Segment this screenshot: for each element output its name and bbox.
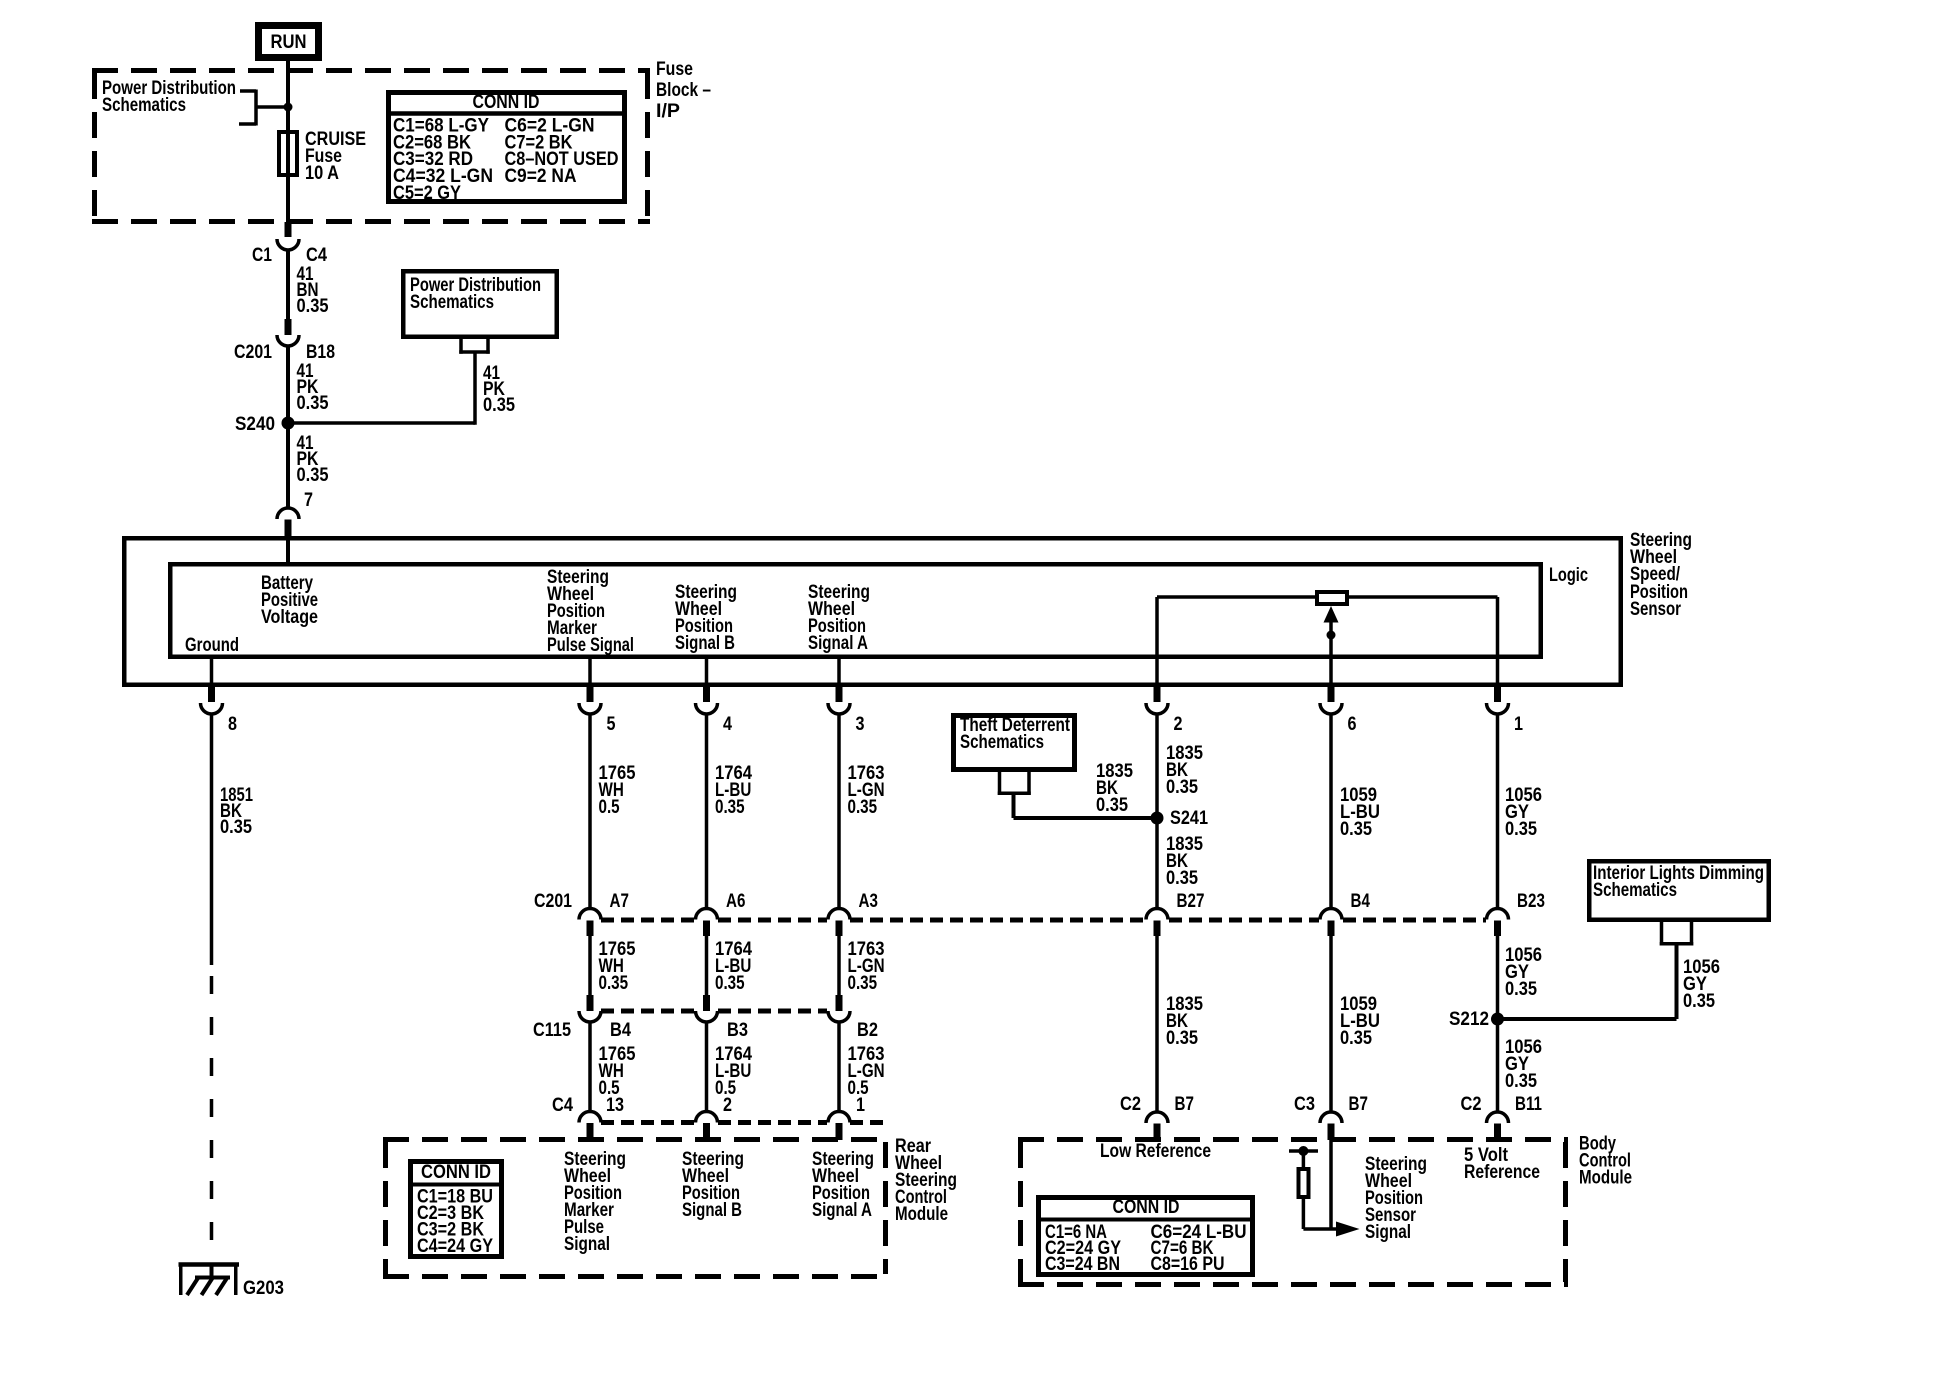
wire 1765 WH [588,714,592,909]
svg-text:B4: B4 [610,1020,631,1041]
BCM connector C2/B11 arc [1487,1112,1509,1123]
svg-text:Reference: Reference [1464,1162,1540,1183]
connector C201 cavity A7 stub [587,921,594,937]
sensor pin 6 connector arc [1320,703,1342,714]
wire 1835 BK B27 to BCM [1155,934,1159,1113]
connector pin 7 stub [285,520,292,538]
connector C201 cavity B23 arc [1487,909,1509,920]
wire: S240 branch to Power Distribution [288,421,475,425]
svg-text:Voltage: Voltage [261,607,318,628]
svg-text:2: 2 [1174,714,1183,735]
svg-text:Signal A: Signal A [812,1200,872,1221]
RUN ignition voltage box [259,26,319,58]
svg-text:B3: B3 [727,1020,748,1041]
wire 41 BN 0.35 [286,249,290,319]
svg-text:10 A: 10 A [305,163,339,184]
svg-text:Signal A: Signal A [808,633,868,654]
CONN ID table (BCM) [1039,1198,1253,1275]
svg-text:Schematics: Schematics [102,95,186,116]
svg-text:C3=24 BN: C3=24 BN [1045,1254,1120,1275]
wire 1851 BK dashed run to G203 [210,965,214,1263]
svg-text:C4: C4 [552,1095,573,1116]
svg-text:C2: C2 [1461,1094,1482,1115]
svg-text:I/P: I/P [656,101,680,122]
connector C4 arc at x=590 [579,1112,601,1123]
svg-text:Low Reference: Low Reference [1100,1141,1211,1162]
connector C115 stub at x=590 [587,995,594,1011]
sensor pin 6 stub [1328,687,1335,702]
svg-text:C8=16 PU: C8=16 PU [1151,1254,1225,1275]
svg-text:Pulse Signal: Pulse Signal [547,635,634,656]
wire 1764 L-BU [705,714,709,909]
svg-text:A7: A7 [610,891,629,912]
wire 1764 L-BU C115 to C4 [705,1021,709,1112]
svg-text:B27: B27 [1177,891,1205,912]
wire 1765 WH C201 to C115 [588,934,592,996]
connector C4 stub at x=706.5 [703,1123,710,1140]
wire 1765 WH C115 to C4 [588,1021,592,1112]
connector C1/C4 stub [285,222,292,237]
wire 1763 L-GN [837,714,841,909]
wire 1059 L-BU pin6 to B4 [1329,714,1333,909]
BCM connector C2/B11 stub [1494,1124,1501,1141]
wire: RUN feed down through fuse block [286,61,290,222]
svg-text:Block –: Block – [656,80,711,101]
svg-text:B2: B2 [857,1020,878,1041]
connector C4 arc at x=839 [828,1112,850,1123]
svg-text:A3: A3 [859,891,878,912]
svg-text:B18: B18 [306,342,335,363]
connector C115 arc at x=590 [579,1011,601,1022]
svg-text:C115: C115 [533,1020,571,1041]
sensor pin 2 connector arc [1146,703,1168,714]
svg-text:Schematics: Schematics [960,732,1044,753]
connector C201/B18 stub [285,319,292,335]
wire 1835 BK pin2 to B27 [1155,714,1159,909]
Steering Wheel Speed/Position Sensor outer box [124,538,1621,685]
wire: theft deterrent to S241 [1012,793,1016,818]
svg-text:6: 6 [1348,714,1357,735]
svg-text:0.35: 0.35 [1505,1071,1537,1092]
svg-text:A6: A6 [726,891,745,912]
svg-text:G203: G203 [243,1278,284,1299]
wire: interior lights dimming to S212 [1675,944,1679,1020]
connector C201 cavity B27 stub [1154,921,1161,937]
bracket under Theft Deterrent box [998,772,1002,795]
connector pin 7 arc [277,508,299,519]
svg-text:0.35: 0.35 [1505,819,1537,840]
wire C3/B7 into BCM signal node [1329,1140,1333,1229]
svg-text:S241: S241 [1170,808,1208,829]
BCM connector C2/B7 arc [1146,1112,1168,1123]
sensor pin 5 stub [587,687,594,702]
svg-text:Logic: Logic [1549,565,1588,586]
svg-text:0.35: 0.35 [1096,795,1128,816]
svg-text:RUN: RUN [271,32,307,53]
wire 1056 GY pin1 to B23 [1496,714,1500,909]
svg-text:B11: B11 [1515,1094,1542,1115]
svg-text:Signal B: Signal B [682,1200,742,1221]
Fuse Block - I/P dashed outline [92,71,650,222]
BCM connector C2/B7 stub [1154,1124,1161,1141]
BCM connector C3/B7 stub [1328,1124,1335,1141]
box: Theft Deterrent Schematics [954,716,1075,770]
svg-text:3: 3 [856,714,865,735]
svg-text:C4: C4 [306,245,327,266]
svg-text:C3: C3 [1294,1094,1315,1115]
svg-text:0.35: 0.35 [1683,991,1715,1012]
svg-text:0.35: 0.35 [297,296,329,317]
svg-text:C4=24 GY: C4=24 GY [417,1236,493,1257]
svg-text:Sensor: Sensor [1630,599,1681,620]
wire 1851 BK 0.35 (solid) [210,714,214,965]
ground G203 symbol [179,1262,240,1267]
connector C115 stub at x=839 [836,995,843,1011]
sensor pin 3 connector arc [828,703,850,714]
svg-text:B23: B23 [1517,891,1545,912]
connector C4 stub at x=590 [587,1123,594,1140]
svg-text:0.35: 0.35 [1340,1028,1372,1049]
svg-text:0.35: 0.35 [599,973,629,994]
CONN ID table (fuse block) [389,93,625,202]
svg-text:1: 1 [856,1095,865,1116]
fuse CRUISE 10A [279,132,297,175]
sensor pin 4 stub [703,687,710,702]
svg-text:0.35: 0.35 [848,797,878,818]
svg-text:Module: Module [1579,1168,1632,1189]
BCM internal pull-up resistor [1289,1149,1318,1153]
splice S240 [282,417,295,430]
sensor Logic inner box [170,564,1541,657]
svg-text:CONN ID: CONN ID [421,1162,491,1183]
wire Ground to pin 8 [210,659,214,687]
sensor pin 1 stub [1494,687,1501,702]
sensor pin 2 stub [1154,687,1161,702]
wire 1059 L-BU B4 to BCM [1329,934,1333,1113]
connector C201 cavity B23 stub [1494,921,1501,937]
dot on wiper wire [1327,631,1336,640]
svg-text:0.35: 0.35 [297,465,329,486]
connector C201 cavity A6 arc [696,908,718,919]
svg-text:Fuse: Fuse [656,59,693,80]
svg-text:0.35: 0.35 [715,973,745,994]
svg-text:Schematics: Schematics [410,292,494,313]
C4 in-line connector dashed row [601,1120,695,1125]
wire pot right leg to pin 1 [1496,597,1500,687]
wire signal A to pin 3 [837,659,841,687]
splice S241 [1151,812,1164,825]
svg-text:0.35: 0.35 [1166,777,1198,798]
bracket from Power Distribution label to feed wire [240,89,256,93]
sensor pin 8 stub [208,687,215,702]
connector C201 cavity B4 arc [1320,909,1342,920]
sensor pin 4 connector arc [696,703,718,714]
svg-text:7: 7 [304,490,313,511]
svg-text:8: 8 [228,714,237,735]
bracket under Power Distribution Schematics box [459,339,463,354]
svg-text:C2: C2 [1120,1094,1141,1115]
svg-text:C1: C1 [252,245,272,266]
connector C4 stub at x=839 [836,1123,843,1140]
box: Power Distribution Schematics [403,271,557,337]
svg-text:Signal: Signal [564,1234,610,1255]
sensor pin 5 connector arc [579,703,601,714]
wire signal B to pin 4 [705,659,709,687]
connector C201 cavity B27 arc [1146,909,1168,920]
svg-text:5: 5 [607,714,616,735]
svg-text:0.35: 0.35 [220,817,252,838]
connector C201 cavity A3 stub [836,921,843,937]
BCM connector C3/B7 arc [1320,1112,1342,1123]
connector C201 cavity A6 stub [703,921,710,937]
svg-text:Module: Module [895,1204,948,1225]
svg-text:2: 2 [723,1095,732,1116]
Rear Wheel Steering Control Module dashed outline [383,1140,888,1277]
wire 1056 GY B23 to S212 to BCM [1496,934,1500,1113]
splice S212 [1491,1013,1504,1026]
potentiometer resistor body [1317,592,1347,604]
svg-text:C201: C201 [534,891,572,912]
svg-text:Signal: Signal [1365,1222,1411,1243]
svg-text:0.35: 0.35 [483,395,515,416]
sensor pin 8 connector arc [201,703,223,714]
Body Control Module dashed outline [1018,1140,1568,1285]
svg-text:0.35: 0.35 [1505,979,1537,1000]
CONN ID table (RWS control module) [411,1162,502,1257]
svg-text:B7: B7 [1349,1094,1368,1115]
wire 41 PK 0.35 [286,345,290,423]
svg-text:C201: C201 [234,342,272,363]
wire 1763 L-GN C201 to C115 [837,934,841,996]
connector C1/C4 arc [277,239,299,250]
svg-text:0.35: 0.35 [715,797,745,818]
connector C115 arc at x=706.5 [696,1011,718,1022]
svg-text:1: 1 [1514,714,1523,735]
connector C201/B18 arc [277,335,299,346]
connector C201 cavity A3 arc [828,909,850,920]
bracket under Interior Lights Dimming box [1660,922,1664,946]
svg-text:0.35: 0.35 [848,973,878,994]
svg-text:CONN ID: CONN ID [1113,1197,1180,1218]
svg-text:13: 13 [606,1095,624,1116]
potentiometer track wire [1157,595,1498,599]
connector C201 cavity A7 arc [579,909,601,920]
C115 in-line connector dashed row [601,1009,695,1014]
sensor pin 3 stub [836,687,843,702]
potentiometer wiper arrow [1329,620,1333,687]
svg-text:C5=2 GY: C5=2 GY [393,183,461,204]
svg-text:B4: B4 [1351,891,1371,912]
wire pin7 into sensor logic [286,535,290,564]
svg-text:0.5: 0.5 [599,797,620,818]
svg-text:CONN ID: CONN ID [473,92,540,113]
box: Interior Lights Dimming Schematics [1589,861,1769,920]
svg-text:S212: S212 [1449,1009,1489,1030]
wire pulse signal to pin 5 [588,659,592,687]
svg-text:0.35: 0.35 [1166,868,1198,889]
wire: S240 down to sensor pin 7 [286,423,290,508]
svg-text:Schematics: Schematics [1593,880,1677,901]
svg-text:Signal B: Signal B [675,633,735,654]
connector C201 cavity B4 stub [1328,921,1335,937]
wire 1763 L-GN C115 to C4 [837,1021,841,1112]
svg-text:0.35: 0.35 [1166,1028,1198,1049]
connector C4 arc at x=706.5 [696,1111,718,1122]
svg-text:0.35: 0.35 [1340,819,1372,840]
svg-text:C9=2 NA: C9=2 NA [505,166,577,187]
wire pot left leg to pin 2 [1155,597,1159,687]
wire 1764 L-BU C201 to C115 [705,934,709,996]
sensor pin 1 connector arc [1487,703,1509,714]
C201 in-line connector dashed row [601,918,695,923]
connector C115 arc at x=839 [828,1011,850,1022]
svg-text:S240: S240 [235,414,275,435]
junction dot on feed wire [284,103,293,112]
connector C115 stub at x=706.5 [703,995,710,1011]
svg-text:4: 4 [723,714,732,735]
svg-text:B7: B7 [1175,1094,1194,1115]
svg-text:0.35: 0.35 [297,393,329,414]
svg-text:Ground: Ground [185,635,239,656]
